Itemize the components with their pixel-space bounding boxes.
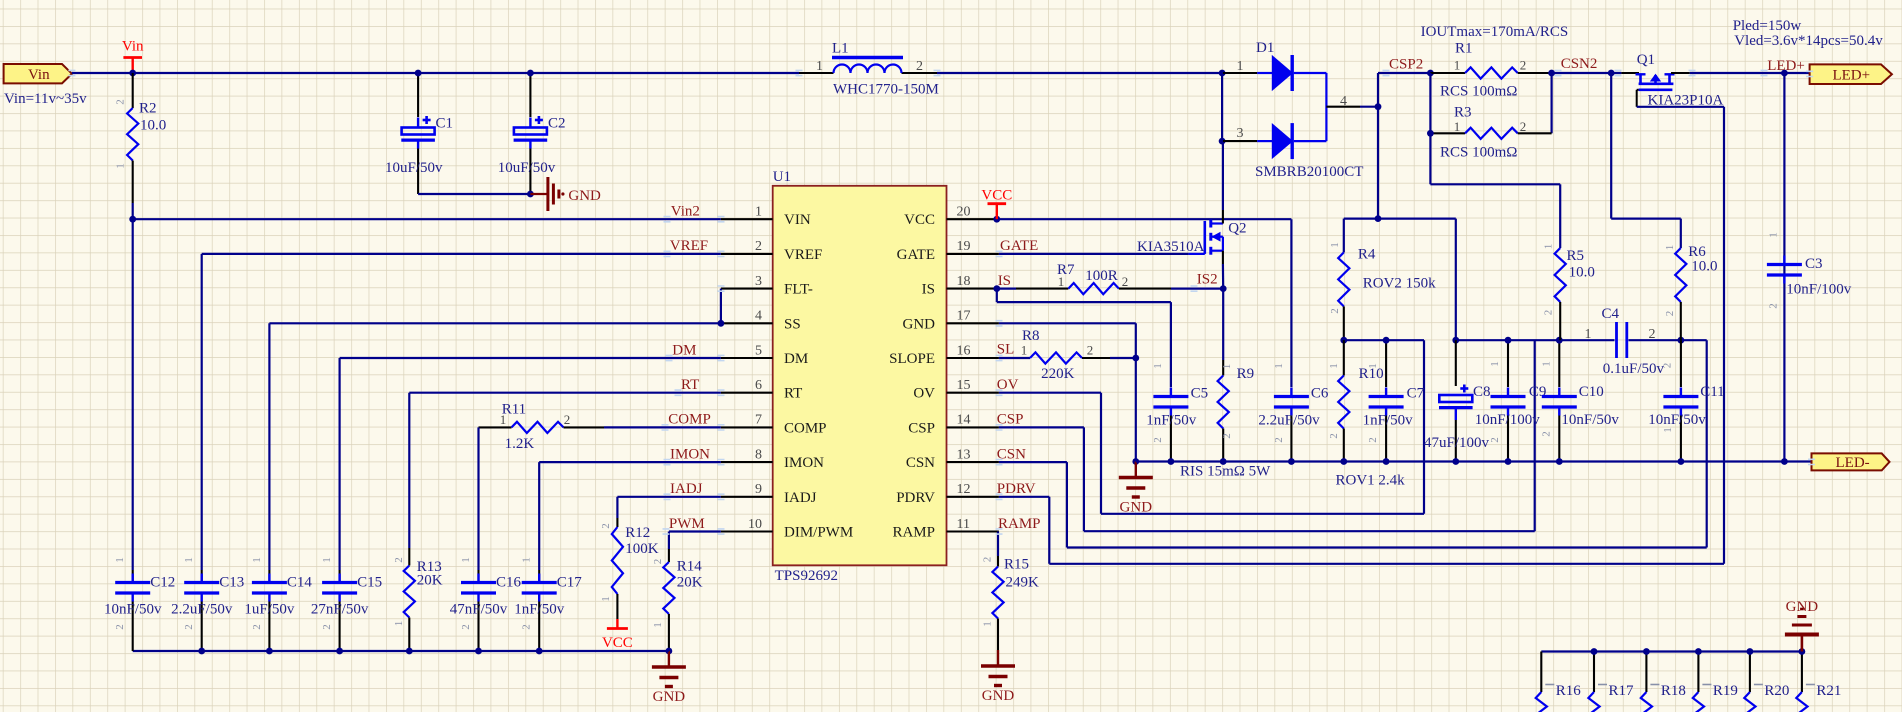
svg-text:2: 2 (1543, 310, 1555, 316)
svg-text:2: 2 (916, 59, 923, 74)
diode D1 SMBRB20100CT (1223, 72, 1257, 74)
node bus gnd (1132, 458, 1139, 465)
svg-text:2.2uF/50v: 2.2uF/50v (171, 602, 233, 618)
node Vin2 junction (129, 216, 136, 223)
node C9 top (1505, 337, 1512, 344)
wire D1 anodes (1221, 73, 1223, 141)
svg-text:IMON: IMON (670, 446, 710, 462)
pin 17 GND (947, 322, 999, 324)
resistor R9 (1222, 289, 1224, 360)
power VCC at R12 (616, 619, 618, 629)
svg-text:12: 12 (957, 482, 971, 497)
svg-text:GND: GND (982, 688, 1015, 704)
svg-text:SLOPE: SLOPE (889, 351, 935, 367)
resistor R8 (999, 357, 1030, 359)
svg-text:1: 1 (1237, 59, 1244, 74)
svg-text:C4: C4 (1602, 306, 1620, 322)
resistor R2 (132, 73, 134, 108)
svg-text:1uF/50v: 1uF/50v (244, 602, 295, 618)
svg-text:VCC: VCC (602, 635, 633, 651)
svg-text:1: 1 (1058, 274, 1065, 289)
svg-text:IOUTmax=170mA/RCS: IOUTmax=170mA/RCS (1421, 24, 1569, 40)
svg-text:2: 2 (652, 559, 664, 565)
svg-text:10nF/50v: 10nF/50v (104, 602, 162, 618)
ground GND at R15 (997, 650, 999, 666)
svg-text:C16: C16 (496, 575, 522, 591)
wire VREF net (202, 253, 721, 255)
svg-text:1: 1 (321, 557, 333, 563)
node C11 top (1678, 337, 1685, 344)
resistor R16 (1540, 652, 1542, 693)
node CSP2 drop (1375, 215, 1382, 222)
wire Q1 gate box (1637, 89, 1639, 91)
pin 20 VCC (947, 218, 999, 220)
pin 11 RAMP (947, 530, 999, 532)
svg-text:2: 2 (1329, 308, 1341, 314)
wire VCC to C6 (1290, 219, 1292, 387)
wire IMON net (539, 461, 721, 463)
wire D1 out to CSP2 (1360, 106, 1378, 108)
capacitor C4 (1615, 322, 1618, 358)
svg-text:C7: C7 (1407, 386, 1425, 402)
node C3 bus (1781, 458, 1788, 465)
svg-text:R16: R16 (1556, 683, 1582, 699)
svg-text:RIS 15mΩ 5W: RIS 15mΩ 5W (1180, 464, 1271, 480)
svg-text:220K: 220K (1041, 366, 1075, 382)
svg-text:3: 3 (1237, 126, 1244, 141)
svg-text:GND: GND (568, 188, 601, 204)
svg-text:Vin: Vin (122, 39, 144, 55)
svg-text:2: 2 (1328, 433, 1340, 439)
wire CSP2 to C8 (1455, 219, 1457, 341)
wire OV rail (1344, 339, 1424, 341)
svg-text:4: 4 (1340, 94, 1347, 109)
svg-text:2: 2 (521, 624, 533, 630)
resistor R18 (1645, 652, 1647, 693)
svg-text:10uF/50v: 10uF/50v (498, 160, 556, 176)
svg-text:47uF/100v: 47uF/100v (1424, 435, 1490, 451)
wire RT net (409, 392, 721, 394)
wire Q1 drain to LED+ (1671, 72, 1690, 74)
resistor R15 (997, 532, 999, 557)
svg-text:10nF/50v: 10nF/50v (1561, 412, 1619, 428)
svg-text:C11: C11 (1700, 384, 1724, 400)
power VCC at pin20 (999, 218, 1292, 220)
svg-text:DM: DM (672, 342, 696, 358)
node CSN2 (1608, 70, 1615, 77)
svg-text:10.0: 10.0 (1691, 259, 1717, 275)
svg-text:IS2: IS2 (1197, 272, 1218, 288)
svg-text:2: 2 (1541, 431, 1553, 437)
svg-text:2: 2 (1768, 303, 1780, 309)
svg-text:10uF/50v: 10uF/50v (385, 160, 443, 176)
svg-text:1: 1 (1662, 427, 1674, 433)
ground GND at bus (1135, 462, 1137, 478)
wire GND pin17 (999, 322, 1136, 324)
svg-text:7: 7 (755, 413, 762, 428)
pin 14 CSP (947, 426, 999, 428)
svg-text:20: 20 (957, 205, 971, 220)
wire bottom right bus (1541, 650, 1802, 652)
pin 7 COMP (721, 426, 773, 428)
svg-text:VIN: VIN (784, 212, 811, 228)
svg-text:2: 2 (321, 624, 333, 630)
wire CSP net (999, 426, 1084, 428)
wire COMP to C16 (477, 427, 479, 570)
node R19 bus (1695, 648, 1702, 655)
svg-text:1: 1 (1541, 361, 1553, 367)
resistor R17 (1593, 652, 1595, 693)
svg-text:R18: R18 (1661, 683, 1686, 699)
node R9 bus (1220, 458, 1227, 465)
svg-text:C6: C6 (1311, 386, 1329, 402)
node R10 bus (1340, 458, 1347, 465)
capacitor C15 (322, 581, 357, 584)
svg-text:TPS92692: TPS92692 (775, 568, 838, 584)
svg-text:2: 2 (1664, 311, 1676, 317)
node SLOPE gnd (1132, 355, 1139, 362)
svg-text:10.0: 10.0 (140, 118, 166, 134)
wire GND LED- bus (1136, 460, 1812, 462)
resistor R3 (1429, 73, 1431, 184)
capacitor C12 (115, 581, 150, 584)
resistor R7 (1016, 288, 1068, 290)
svg-text:ROV2 150k: ROV2 150k (1363, 276, 1436, 292)
node C8 bus (1452, 458, 1459, 465)
svg-text:C14: C14 (287, 575, 313, 591)
wire CSN2 rail (1552, 72, 1622, 74)
ground GND at R21 bus (1801, 635, 1804, 652)
svg-text:11: 11 (957, 517, 970, 532)
wire PDRV net (999, 496, 1049, 498)
svg-text:IS: IS (998, 273, 1011, 289)
svg-text:100K: 100K (625, 541, 659, 557)
svg-text:DM: DM (784, 351, 808, 367)
ground GND at R14 (668, 651, 670, 667)
svg-text:RAMP: RAMP (892, 525, 935, 541)
svg-text:R9: R9 (1237, 366, 1255, 382)
svg-text:2.2uF/50v: 2.2uF/50v (1258, 413, 1320, 429)
svg-text:2: 2 (982, 557, 994, 563)
transistor Q1 KIA23P10A (1621, 72, 1639, 74)
pin 6 RT (721, 392, 773, 394)
capacitor C17 (522, 581, 557, 584)
svg-text:Q1: Q1 (1637, 52, 1655, 68)
node IS (993, 285, 1000, 292)
ground GND at C1C2 (530, 193, 547, 195)
node C13 bus (198, 648, 205, 655)
svg-text:1: 1 (816, 59, 823, 74)
svg-text:C8: C8 (1473, 384, 1491, 400)
svg-text:2: 2 (1520, 119, 1527, 134)
svg-text:R20: R20 (1764, 683, 1789, 699)
svg-text:VCC: VCC (904, 212, 935, 228)
svg-text:1.2K: 1.2K (505, 436, 535, 452)
svg-text:1nF/50v: 1nF/50v (514, 602, 565, 618)
svg-text:1: 1 (115, 163, 127, 169)
svg-text:2: 2 (1221, 433, 1233, 439)
pin 5 DM (721, 357, 773, 359)
svg-text:PDRV: PDRV (997, 481, 1036, 497)
svg-text:2: 2 (1122, 274, 1129, 289)
node D1 pin3 (1219, 138, 1226, 145)
node C3 top (1781, 70, 1788, 77)
svg-text:Q2: Q2 (1228, 221, 1246, 237)
svg-text:DIM/PWM: DIM/PWM (784, 525, 853, 541)
svg-text:17: 17 (957, 309, 971, 324)
svg-text:2: 2 (1489, 437, 1501, 443)
svg-text:1: 1 (755, 205, 762, 220)
svg-text:C1: C1 (436, 116, 454, 132)
svg-text:1: 1 (1273, 363, 1285, 369)
node C15 bus (336, 648, 343, 655)
svg-text:IS: IS (922, 282, 935, 298)
svg-text:IADJ: IADJ (670, 481, 703, 497)
svg-text:1: 1 (600, 596, 612, 602)
svg-text:2: 2 (114, 624, 126, 630)
pin 16 SLOPE (947, 357, 999, 359)
node C8 top (1452, 337, 1459, 344)
svg-text:COMP: COMP (784, 420, 827, 436)
svg-text:LED-: LED- (1836, 455, 1870, 471)
node R18 bus (1643, 648, 1650, 655)
node C10 bus (1556, 458, 1563, 465)
svg-text:CSN: CSN (906, 455, 935, 471)
svg-text:1: 1 (1328, 363, 1340, 369)
svg-text:R17: R17 (1609, 683, 1635, 699)
svg-text:L1: L1 (832, 41, 849, 57)
svg-text:6: 6 (755, 378, 762, 393)
wire R5 top (1430, 183, 1560, 185)
svg-text:D1: D1 (1256, 40, 1274, 56)
wire CSN2 to R6 (1610, 73, 1612, 219)
svg-text:LED+: LED+ (1832, 67, 1870, 83)
pin 18 IS (947, 288, 999, 290)
node CSP2/R1 (1427, 70, 1434, 77)
node C7 bus (1383, 458, 1390, 465)
svg-text:COMP: COMP (668, 412, 711, 428)
svg-text:GATE: GATE (897, 247, 935, 263)
svg-text:2: 2 (251, 624, 263, 630)
wire CSP2 rail2 (1344, 218, 1456, 220)
capacitor C2 (529, 73, 531, 117)
svg-text:1: 1 (982, 621, 994, 627)
resistor R4 (1343, 219, 1345, 253)
svg-text:1: 1 (251, 557, 263, 563)
node C16 bus (475, 648, 482, 655)
node R3 pin1 (1427, 130, 1434, 137)
pin 9 IADJ (721, 496, 773, 498)
svg-text:R21: R21 (1816, 683, 1841, 699)
svg-text:27nF/50v: 27nF/50v (311, 602, 369, 618)
svg-text:ROV1 2.4k: ROV1 2.4k (1336, 473, 1406, 489)
svg-text:OV: OV (913, 386, 935, 402)
resistor R6 (1680, 219, 1682, 248)
resistor R10 (1343, 340, 1345, 375)
svg-text:5: 5 (755, 343, 762, 358)
wire IS to C5 (996, 289, 998, 303)
svg-text:1: 1 (1768, 232, 1780, 238)
svg-text:R12: R12 (625, 525, 650, 541)
svg-text:8: 8 (755, 447, 762, 462)
svg-text:1: 1 (183, 557, 195, 563)
svg-text:1: 1 (393, 621, 405, 627)
capacitor C7 (1385, 340, 1387, 387)
svg-text:R14: R14 (677, 559, 703, 575)
pin 15 OV (947, 392, 999, 394)
capacitor C5 (1153, 395, 1188, 398)
node R4 bottom (1340, 337, 1347, 344)
capacitor C1 (417, 73, 419, 117)
svg-text:10.0: 10.0 (1569, 265, 1595, 281)
node IS2 (1220, 285, 1227, 292)
wire top rail mid (937, 72, 1222, 74)
svg-text:VREF: VREF (784, 247, 822, 263)
resistor R19 (1697, 652, 1699, 693)
svg-text:RT: RT (681, 377, 699, 393)
pin 12 PDRV (947, 496, 999, 498)
svg-text:2: 2 (1367, 437, 1379, 443)
svg-text:3: 3 (755, 274, 762, 289)
svg-text:C5: C5 (1191, 386, 1209, 402)
svg-text:10nF/100v: 10nF/100v (1475, 412, 1541, 428)
svg-text:RCS 100mΩ: RCS 100mΩ (1440, 84, 1517, 100)
svg-text:C2: C2 (548, 116, 566, 132)
wire Q2 drain (1222, 141, 1224, 210)
svg-text:C13: C13 (219, 575, 244, 591)
wire OV net (999, 392, 1101, 394)
svg-text:Vin2: Vin2 (671, 204, 700, 220)
svg-text:IMON: IMON (784, 455, 824, 471)
svg-text:2: 2 (600, 523, 612, 529)
svg-text:CSN2: CSN2 (1561, 56, 1598, 72)
svg-text:Vled=3.6v*14pcs=50.4v: Vled=3.6v*14pcs=50.4v (1734, 33, 1883, 49)
svg-text:1nF/50v: 1nF/50v (1363, 413, 1414, 429)
svg-text:1: 1 (1664, 245, 1676, 251)
svg-text:10nF/100v: 10nF/100v (1786, 282, 1852, 298)
svg-text:C3: C3 (1805, 256, 1823, 272)
inductor L1 (799, 72, 834, 74)
node Vin/R2 (129, 70, 136, 77)
svg-text:1: 1 (1585, 327, 1592, 342)
svg-text:1: 1 (1221, 364, 1233, 370)
wire marker dots (68, 70, 75, 75)
pin 2 VREF (721, 253, 773, 255)
resistor R13 (408, 548, 410, 566)
svg-text:15: 15 (957, 378, 971, 393)
svg-text:1: 1 (1454, 58, 1461, 73)
svg-text:2: 2 (1087, 343, 1094, 358)
svg-text:14: 14 (957, 413, 971, 428)
port Vin (4, 64, 72, 83)
wire Vin2 net (133, 218, 721, 220)
svg-text:2: 2 (393, 557, 405, 563)
wire IADJ net (617, 496, 721, 498)
svg-text:GND: GND (903, 316, 936, 332)
svg-text:2: 2 (564, 412, 571, 427)
svg-text:1: 1 (114, 557, 126, 563)
resistor R21 (1801, 652, 1803, 693)
svg-text:RCS 100mΩ: RCS 100mΩ (1440, 145, 1517, 161)
capacitor C13 (184, 581, 219, 584)
svg-text:CSP: CSP (908, 420, 935, 436)
svg-text:WHC1770-150M: WHC1770-150M (833, 82, 939, 98)
svg-text:1: 1 (1454, 119, 1461, 134)
capacitor C6 (1274, 395, 1309, 398)
svg-text:20K: 20K (677, 575, 703, 591)
power Vin (131, 58, 133, 74)
pin 10 DIM/PWM (721, 530, 773, 532)
svg-text:PWM: PWM (669, 516, 705, 532)
svg-text:GND: GND (653, 689, 686, 705)
resistor R1 (1430, 72, 1465, 74)
svg-text:20K: 20K (417, 573, 443, 589)
wire C1-C2 bottom (418, 193, 530, 195)
svg-text:1: 1 (652, 622, 664, 628)
pin 4 SS (721, 322, 773, 324)
svg-text:100R: 100R (1085, 268, 1118, 284)
svg-text:R4: R4 (1358, 247, 1376, 263)
wire C12 drop (132, 219, 134, 570)
capacitor C14 (252, 581, 287, 584)
svg-text:FLT-: FLT- (784, 282, 813, 298)
svg-text:2: 2 (1520, 58, 1527, 73)
svg-text:47nF/50v: 47nF/50v (450, 602, 508, 618)
svg-text:2: 2 (460, 624, 472, 630)
svg-text:C15: C15 (357, 575, 382, 591)
wire GATE net (999, 253, 1189, 255)
svg-text:C17: C17 (557, 575, 583, 591)
node pin4 (1375, 103, 1382, 110)
svg-text:1: 1 (1489, 361, 1501, 367)
svg-text:2: 2 (1152, 437, 1164, 443)
svg-text:10nF/50v: 10nF/50v (1648, 412, 1706, 428)
capacitor C10 (1558, 340, 1560, 387)
svg-text:Pled=150w: Pled=150w (1733, 18, 1802, 34)
port LED- (1812, 453, 1890, 470)
svg-text:0.1uF/50v: 0.1uF/50v (1603, 361, 1665, 377)
capacitor C8 (1455, 340, 1457, 386)
svg-text:R1: R1 (1455, 41, 1473, 57)
node FLT-/SS (718, 320, 725, 327)
wire DM net (340, 357, 721, 359)
svg-text:R19: R19 (1713, 683, 1738, 699)
resistor R20 (1749, 652, 1751, 693)
svg-text:RAMP: RAMP (998, 516, 1041, 532)
svg-text:13: 13 (957, 447, 971, 462)
svg-text:249K: 249K (1006, 575, 1040, 591)
svg-text:GND: GND (1786, 599, 1819, 615)
wire top rail left (72, 72, 799, 74)
svg-text:1: 1 (1021, 343, 1028, 358)
capacitor C16 (461, 581, 496, 584)
svg-text:1nF/50v: 1nF/50v (1146, 413, 1197, 429)
op-amp U1 TPS92692 body (773, 186, 947, 566)
wire CSP rail (1456, 339, 1615, 341)
wire CSN rail (1629, 339, 1707, 341)
wire SS net (269, 322, 721, 324)
resistor R12 (616, 518, 618, 527)
capacitor C3 (1783, 73, 1785, 256)
svg-text:C10: C10 (1579, 384, 1604, 400)
svg-text:Vin=11v~35v: Vin=11v~35v (4, 91, 87, 107)
wire bottom left bus (133, 650, 669, 652)
svg-text:1: 1 (460, 557, 472, 563)
node R20 bus (1747, 648, 1754, 655)
wire IS net (999, 288, 1016, 290)
node D1 pin1 (1219, 70, 1226, 77)
capacitor C9 (1507, 340, 1509, 387)
